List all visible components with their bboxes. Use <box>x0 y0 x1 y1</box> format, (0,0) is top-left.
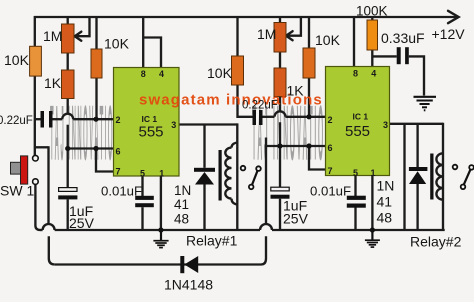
svg-text:48: 48 <box>174 212 189 227</box>
svg-text:Relay#1: Relay#1 <box>186 233 238 249</box>
svg-text:1M: 1M <box>43 28 62 44</box>
svg-text:Relay#2: Relay#2 <box>410 234 462 250</box>
svg-text:3: 3 <box>383 120 388 130</box>
svg-text:1: 1 <box>371 168 376 178</box>
svg-text:555: 555 <box>139 124 164 141</box>
svg-text:2: 2 <box>328 115 333 125</box>
svg-text:5: 5 <box>353 168 358 178</box>
svg-text:10K: 10K <box>207 65 233 81</box>
svg-text:4: 4 <box>371 69 376 79</box>
svg-text:0.22uF: 0.22uF <box>242 100 278 112</box>
svg-text:48: 48 <box>377 210 393 226</box>
svg-text:4: 4 <box>159 69 164 79</box>
svg-text:1N: 1N <box>174 183 191 198</box>
svg-text:555: 555 <box>345 123 370 140</box>
svg-text:SW 1: SW 1 <box>0 183 34 199</box>
svg-text:IC 1: IC 1 <box>142 114 158 124</box>
svg-text:1K: 1K <box>44 75 62 91</box>
svg-text:25V: 25V <box>283 211 309 227</box>
svg-text:100K: 100K <box>356 4 388 19</box>
svg-text:1M: 1M <box>257 26 276 42</box>
svg-text:25V: 25V <box>69 215 95 231</box>
svg-text:1N4148: 1N4148 <box>164 277 213 293</box>
svg-text:41: 41 <box>377 194 393 210</box>
svg-text:10K: 10K <box>104 36 130 52</box>
svg-text:3: 3 <box>171 120 176 130</box>
svg-text:8: 8 <box>141 69 146 79</box>
svg-text:6: 6 <box>328 143 333 153</box>
svg-text:TAJ INNOVATIO: TAJ INNOVATIO <box>50 89 114 176</box>
svg-text:1: 1 <box>159 168 164 178</box>
svg-text:0.22uF: 0.22uF <box>0 115 33 127</box>
svg-text:0.01uF: 0.01uF <box>310 184 351 199</box>
svg-text:6: 6 <box>116 147 121 157</box>
svg-text:10K: 10K <box>4 52 30 68</box>
svg-text:1K: 1K <box>287 83 305 99</box>
svg-text:10K: 10K <box>315 32 341 48</box>
svg-text:41: 41 <box>174 197 189 212</box>
svg-text:0.01uF: 0.01uF <box>101 184 142 199</box>
svg-text:IC 1: IC 1 <box>353 112 369 122</box>
svg-text:1N: 1N <box>377 177 395 193</box>
svg-text:0.33uF: 0.33uF <box>381 30 425 46</box>
svg-text:2: 2 <box>116 115 121 125</box>
svg-text:7: 7 <box>328 166 333 176</box>
svg-text:8: 8 <box>353 69 358 79</box>
svg-text:+12V: +12V <box>432 26 466 42</box>
svg-text:5: 5 <box>140 168 145 178</box>
svg-text:7: 7 <box>116 167 121 177</box>
